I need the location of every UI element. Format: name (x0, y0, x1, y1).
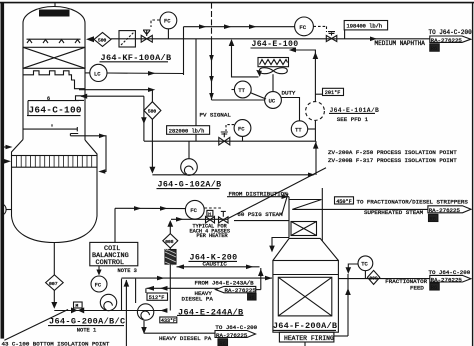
svg-text:RA-276225: RA-276225 (431, 37, 463, 44)
svg-text:198400 lb/h: 198400 lb/h (347, 24, 383, 30)
svg-text:NOTE 3: NOTE 3 (118, 268, 137, 274)
svg-text:ZV-200A F-250 PROCESS ISOLATIO: ZV-200A F-250 PROCESS ISOLATION POINT (328, 149, 457, 156)
svg-text:6: 6 (47, 96, 50, 102)
svg-text:500: 500 (148, 109, 157, 115)
svg-text:433°F: 433°F (161, 318, 176, 324)
svg-text:007: 007 (49, 281, 58, 287)
svg-text:HEAVY DIESEL PA: HEAVY DIESEL PA (159, 335, 212, 342)
svg-text:J64-E-101A/B: J64-E-101A/B (330, 107, 380, 114)
svg-text:DUTY: DUTY (282, 89, 296, 96)
svg-text:TC: TC (361, 262, 367, 268)
svg-text:UC: UC (269, 98, 275, 104)
svg-text:TO J64-C-200: TO J64-C-200 (429, 29, 473, 36)
svg-text:FC: FC (190, 208, 196, 214)
svg-text:PV SIGNAL: PV SIGNAL (200, 112, 232, 119)
svg-text:MEDIUM NAPHTHA: MEDIUM NAPHTHA (375, 40, 426, 47)
svg-text:DIESEL PA: DIESEL PA (182, 295, 214, 302)
svg-text:H: H (208, 211, 211, 217)
svg-text:J64-F-200A/B: J64-F-200A/B (273, 321, 337, 331)
svg-text:FC: FC (299, 24, 306, 31)
svg-text:512°F: 512°F (149, 295, 165, 301)
svg-text:201°F: 201°F (325, 90, 341, 96)
svg-text:R6: R6 (431, 46, 437, 52)
svg-text:FEED: FEED (410, 284, 424, 291)
svg-text:LC: LC (94, 71, 100, 77)
svg-text:RA-276225: RA-276225 (429, 207, 461, 214)
svg-text:J64-G-102A/B: J64-G-102A/B (158, 179, 222, 189)
svg-text:450°F: 450°F (336, 199, 352, 205)
svg-text:R6: R6 (430, 216, 436, 222)
svg-text:NOTE 1: NOTE 1 (77, 327, 96, 333)
svg-text:60 PSIG STEAM: 60 PSIG STEAM (237, 211, 283, 218)
svg-text:FC: FC (238, 126, 244, 132)
svg-text:R6: R6 (431, 285, 437, 291)
svg-text:500: 500 (98, 37, 107, 43)
svg-text:CAUSTIC: CAUSTIC (203, 260, 228, 267)
svg-text:TT: TT (295, 127, 302, 133)
svg-text:J64-G-200A/B/C: J64-G-200A/B/C (49, 316, 125, 326)
svg-text:ZV-200B F-317 PROCESS ISOLATIO: ZV-200B F-317 PROCESS ISOLATION POINT (328, 157, 457, 164)
svg-text:J64-C-100: J64-C-100 (29, 105, 82, 116)
svg-text:PER HEATER: PER HEATER (197, 233, 228, 239)
svg-text:SUPERHEATED STEAM: SUPERHEATED STEAM (364, 209, 424, 216)
svg-text:FROM J64-E-243A/B: FROM J64-E-243A/B (195, 280, 255, 287)
svg-text:CONTROL: CONTROL (96, 259, 125, 267)
svg-text:FC: FC (95, 282, 101, 288)
svg-text:SEE PFD 1: SEE PFD 1 (337, 116, 369, 123)
svg-text:HEATER FIRING: HEATER FIRING (284, 335, 334, 342)
svg-text:R6: R6 (219, 341, 225, 346)
svg-text:RA-276225: RA-276225 (216, 332, 248, 339)
svg-text:M: M (76, 303, 79, 309)
svg-text:R6: R6 (248, 295, 254, 301)
svg-text:009: 009 (369, 276, 378, 282)
svg-text:TT: TT (238, 88, 245, 94)
svg-text:008: 008 (165, 239, 174, 245)
svg-text:TO FRACTIONATOR/DIESEL STRIPPE: TO FRACTIONATOR/DIESEL STRIPPERS (357, 198, 469, 205)
svg-text:282000 lb/h: 282000 lb/h (169, 128, 205, 134)
svg-text:43 C-100 BOTTOM ISOLATION POIN: 43 C-100 BOTTOM ISOLATION POINT (2, 340, 110, 346)
svg-text:FC: FC (164, 19, 170, 25)
